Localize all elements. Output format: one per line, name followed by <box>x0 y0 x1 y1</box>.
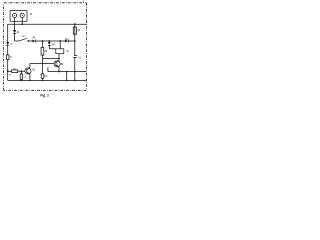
svg-text:48: 48 <box>52 44 55 47</box>
svg-text:52: 52 <box>10 57 13 59</box>
svg-text:44: 44 <box>66 50 69 53</box>
svg-text:66: 66 <box>45 75 48 78</box>
svg-text:54: 54 <box>23 76 26 78</box>
svg-text:44: 44 <box>17 31 20 34</box>
svg-text:62: 62 <box>77 29 80 32</box>
svg-text:61: 61 <box>79 56 82 59</box>
svg-text:46: 46 <box>10 44 13 46</box>
svg-text:64: 64 <box>33 37 36 40</box>
svg-text:56: 56 <box>45 50 48 53</box>
svg-text:56: 56 <box>32 69 35 72</box>
svg-text:44.1: 44.1 <box>22 36 27 38</box>
svg-text:50: 50 <box>9 75 12 77</box>
svg-text:M: M <box>30 13 32 16</box>
svg-text:Fig. 1: Fig. 1 <box>40 94 49 98</box>
svg-text:45: 45 <box>65 38 68 41</box>
svg-text:60: 60 <box>61 63 64 66</box>
svg-text:4: 4 <box>83 0 85 3</box>
